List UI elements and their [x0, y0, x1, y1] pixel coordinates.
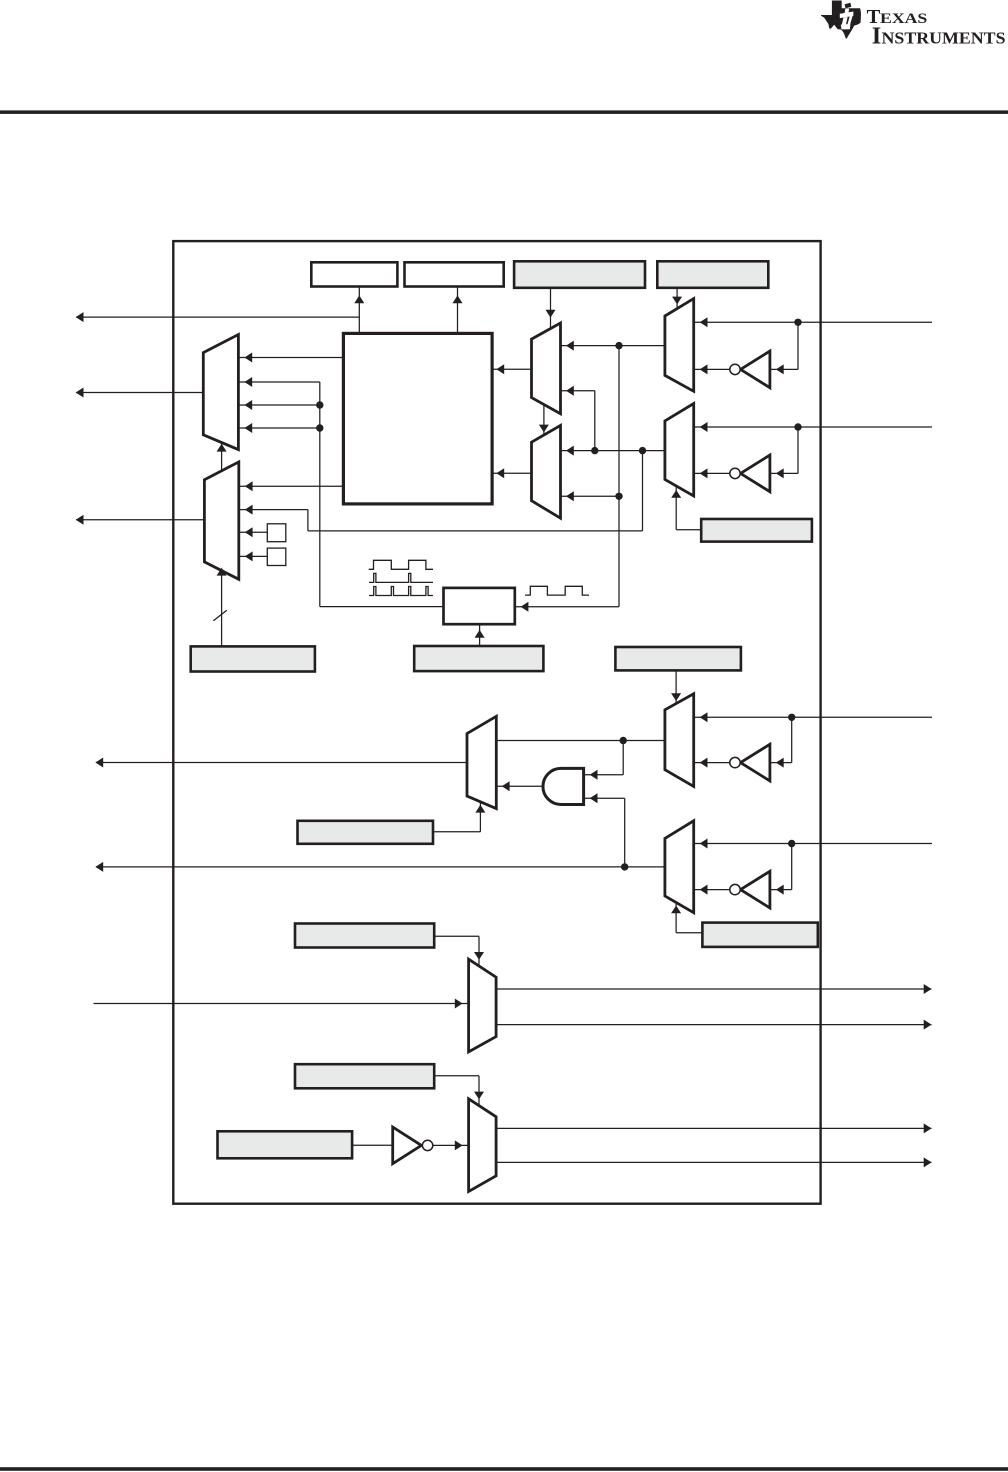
- wire T6 output1 to pin (right arrow): [496, 984, 931, 994]
- output mux T7: [469, 1099, 497, 1192]
- register box B1 (white, top row): [311, 262, 397, 286]
- waveform W1 (divided clock /1): [369, 560, 433, 569]
- wire to inverter U1: [770, 322, 798, 374]
- svg-text:NSTRUMENTS: NSTRUMENTS: [882, 28, 1006, 47]
- mux RM1 (right row1): [665, 299, 694, 392]
- mux MM1 (middle upper): [532, 323, 561, 414]
- mode box G6 (gray, row3 right): [615, 647, 741, 670]
- wire to inverter U3: [770, 717, 792, 767]
- select box G9 (gray): [295, 924, 434, 948]
- Texas Instruments logo bug (Texas state with ti): [821, 1, 861, 39]
- wire J10 to AND input1: [584, 741, 624, 780]
- wire G9 to T6 select (down arrow): [434, 936, 484, 966]
- wire U2 output to RM2 input2: [694, 468, 730, 478]
- wire MT4 select from G7: [433, 802, 485, 832]
- wire MM2 input2 to clock net: [561, 491, 620, 501]
- waveform W3 (pulse /1): [369, 587, 433, 596]
- node J1 (tap input3): [316, 401, 323, 408]
- wire LM1 output exit (left arrow): [76, 388, 204, 398]
- wire RM4 output to MT4 input1: [496, 740, 665, 742]
- inverter U5: [730, 871, 770, 908]
- inverter U1: [730, 351, 770, 388]
- wire MT4 output exit (left arrow): [95, 758, 467, 768]
- wire RM2 output to MM2 input1: [561, 446, 665, 456]
- pulse box (clock shaper): [444, 588, 515, 624]
- trapezoid MT4 (capture latch mux): [467, 716, 496, 808]
- wire AND input2 from RM5 net: [584, 793, 625, 867]
- mode box G5 (gray, row3 middle): [414, 646, 543, 671]
- select box G3 (gray): [701, 519, 812, 542]
- and gate U4 (mirrored): [543, 768, 584, 804]
- wire to inverter U2: [770, 427, 798, 478]
- node J7: [591, 447, 598, 454]
- svg-text:EXAS: EXAS: [880, 11, 927, 27]
- wire clock net into pulse box: [515, 602, 619, 612]
- wire T7 output1 to pin (right arrow): [496, 1123, 931, 1133]
- diagram outer border: [173, 241, 820, 1204]
- wire MM1 output to big block: [492, 364, 531, 374]
- mux RM2 (right row2): [665, 404, 694, 497]
- node J12: [621, 863, 628, 870]
- output mux T6: [469, 959, 497, 1052]
- wire U3 output to RM4 input2: [694, 758, 730, 768]
- wire LM2 to LM1 select (up arrow): [217, 443, 227, 471]
- wire G2 to RM1 select (down arrow): [672, 288, 682, 309]
- wire RM4 input1 from right pin: [694, 712, 932, 722]
- wire RM2 input1 from right pin: [694, 422, 932, 432]
- wire G6 to RM4 select (down arrow): [671, 670, 681, 703]
- wire RM5 output exit (left arrow): [95, 862, 665, 872]
- wire U1 output to RM1 input2: [694, 364, 730, 374]
- wire RM1 input1 from right pin: [694, 317, 932, 327]
- wire U6 output to T7 (right arrow): [433, 1140, 469, 1150]
- wire U4 output to MT4 input2: [496, 781, 543, 791]
- svg-text:I: I: [872, 22, 882, 49]
- wire LM1 input4: [238, 423, 319, 433]
- wire G1 to MM1 select (down arrow): [546, 288, 556, 328]
- wire to inverter U5: [770, 844, 792, 895]
- node J9: [788, 714, 795, 721]
- node J6: [794, 423, 801, 430]
- select box G7 (gray): [298, 821, 434, 844]
- wire LM2 input1 from big block: [239, 481, 344, 491]
- wire LM1 input3: [238, 400, 319, 410]
- wire T6 output2 to pin (right arrow): [496, 1020, 931, 1030]
- mux MM2 (middle lower): [532, 425, 561, 518]
- wire RM2 select from G3: [671, 487, 701, 530]
- node J8: [639, 447, 646, 454]
- wire LM1 input1 from big block: [238, 353, 343, 363]
- control box G2 (gray, top row): [657, 261, 768, 288]
- wire RM5 select from G8: [671, 903, 702, 933]
- inverter U2: [730, 455, 770, 492]
- mux LM1 (left top): [203, 335, 238, 450]
- node J5 (RM1 output tap): [615, 342, 622, 349]
- wire RM2 net down: [642, 451, 644, 531]
- main counter block: [343, 333, 492, 504]
- mux RM5 (right row5): [665, 821, 694, 913]
- node J2 (tap input4): [316, 424, 323, 431]
- control box G11 (gray): [218, 1131, 353, 1158]
- logo wordmark INSTRUMENTS: [872, 22, 1006, 49]
- wire MM1 to MM2 cascade (down arrow): [539, 405, 549, 437]
- mux RM4 (right row4): [665, 694, 694, 787]
- mode box G4 (gray, row3 left): [191, 646, 315, 671]
- top horizontal rule: [0, 110, 1008, 114]
- wire LM1 input2 / divider taps: [238, 377, 443, 607]
- bottom horizontal rule: [0, 1467, 1008, 1471]
- waveform W4 (input clock): [525, 586, 589, 595]
- wire big block to B2 with up arrow: [453, 287, 463, 334]
- node J11: [788, 840, 795, 847]
- mux LM2 (left second): [204, 462, 238, 579]
- inverter U6 (right pointing): [393, 1127, 433, 1164]
- node J3 (clock net tap): [615, 493, 622, 500]
- logo wordmark TEXAS: [867, 6, 928, 28]
- wire MM1 input2 from RM2 net: [561, 386, 595, 451]
- wire G5 to pulse box (up arrow): [475, 624, 485, 646]
- wire LM2 input3 from flag square S1: [239, 527, 267, 537]
- wire LM2 select from G4 (bus with tick): [213, 568, 226, 647]
- wire exit net A (left arrow, top): [76, 312, 360, 322]
- flag square S2: [267, 548, 286, 565]
- node J4: [794, 319, 801, 326]
- wire LM2 input4 from flag square S2: [239, 551, 267, 561]
- wire RM5 input1 from right pin: [694, 839, 932, 849]
- control box G1 (gray, top row): [514, 261, 645, 288]
- wire MM2 output to big block: [492, 468, 531, 478]
- wire LM2 input2 from RM2 net: [239, 505, 643, 531]
- wire RM1 output to MM1 input1: [561, 341, 665, 351]
- wire input pin to T6 (right arrow): [94, 999, 469, 1009]
- flag square S1: [267, 524, 286, 542]
- wire clock net vertical: [618, 346, 620, 607]
- wire LM2 output exit (left arrow): [76, 515, 205, 525]
- node J10: [620, 737, 627, 744]
- wire big block to B1 with up arrow: [354, 287, 364, 334]
- wire G11 to inverter U6: [352, 1144, 393, 1146]
- select box G10 (gray): [295, 1064, 434, 1088]
- register box B2 (white, top row): [405, 262, 504, 286]
- select box G8 (gray): [702, 923, 817, 947]
- waveform W2 (pulse /2): [369, 573, 433, 582]
- inverter U3: [730, 744, 770, 781]
- wire U5 output to RM5 input2: [694, 885, 730, 895]
- wire G10 to T7 select (down arrow): [434, 1076, 484, 1106]
- wire T7 output2 to pin (right arrow): [496, 1157, 931, 1167]
